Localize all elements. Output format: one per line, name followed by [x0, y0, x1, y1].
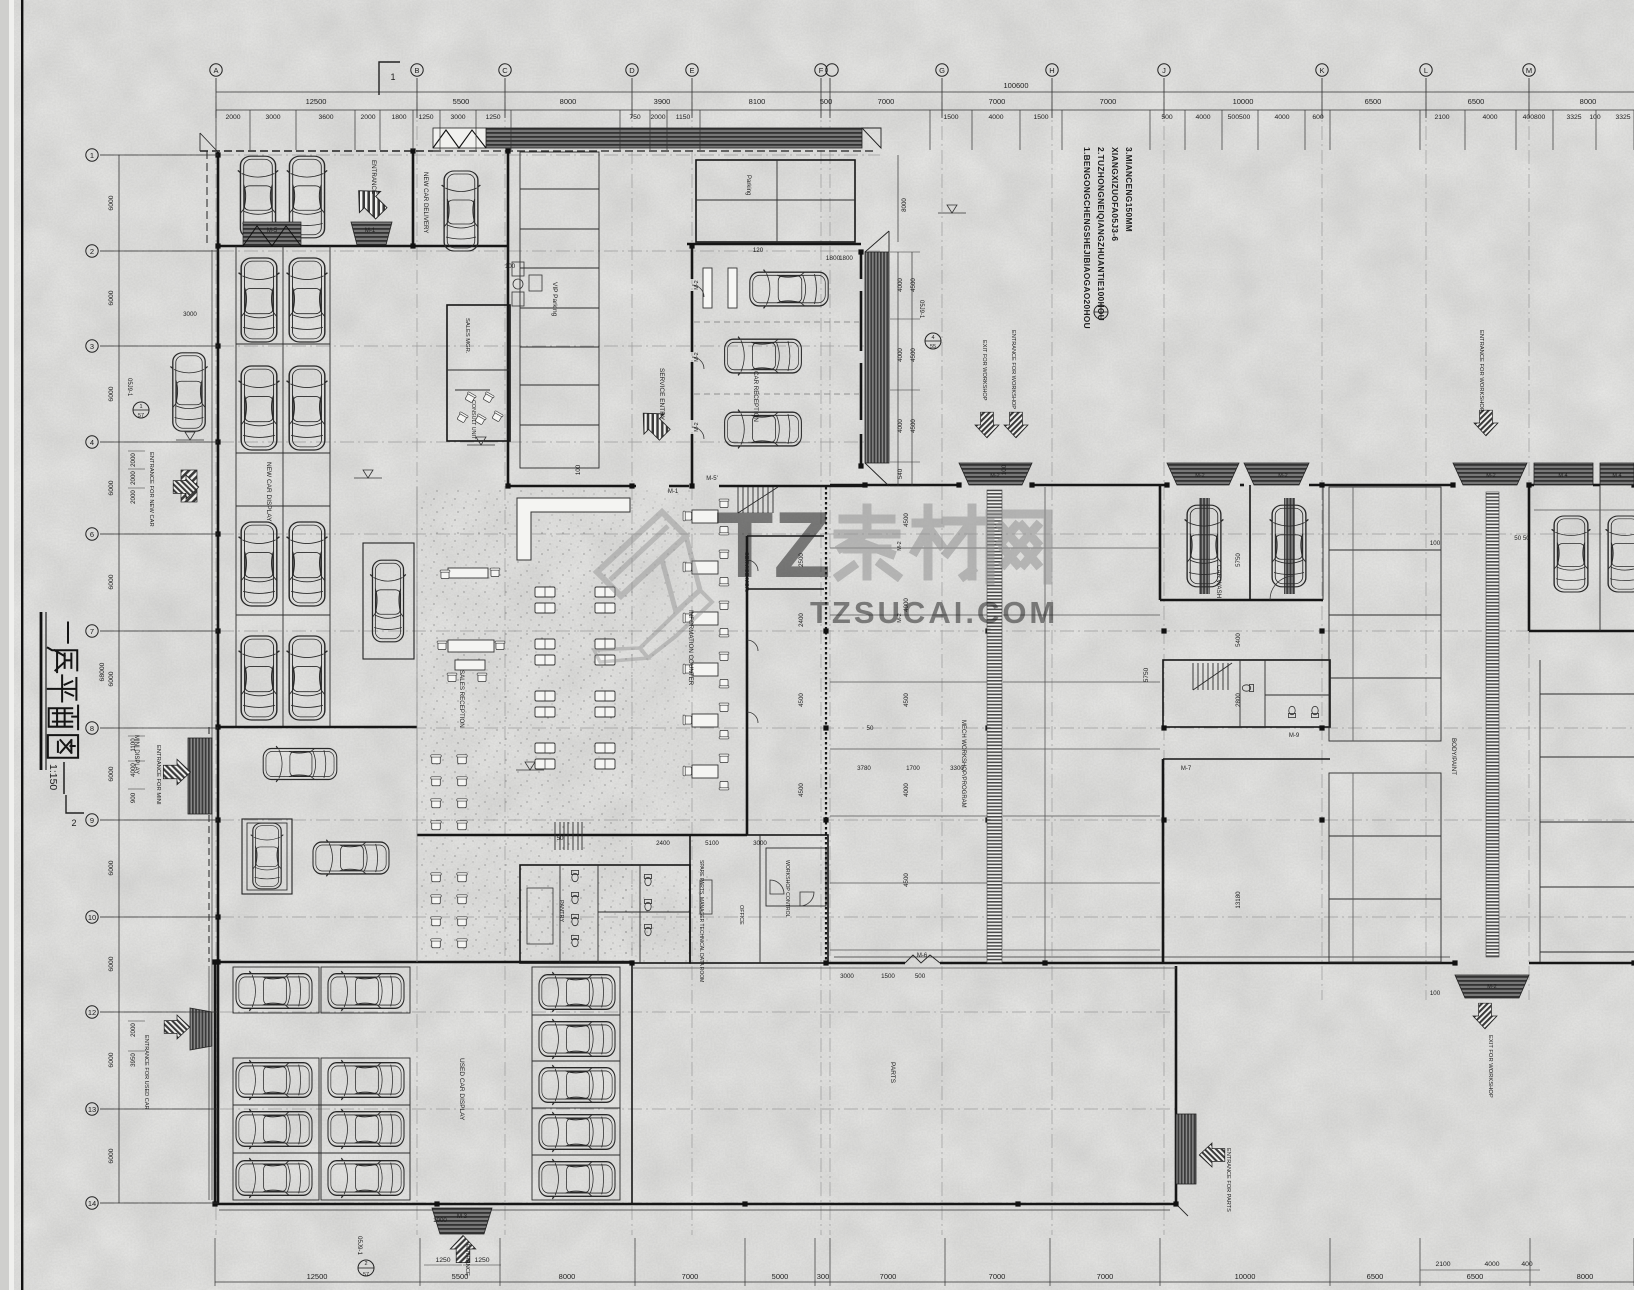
svg-text:12: 12	[88, 1008, 96, 1017]
svg-text:400800: 400800	[1523, 114, 1546, 121]
entrance arrow	[1473, 1003, 1497, 1029]
svg-text:OFFICE: OFFICE	[738, 905, 744, 925]
canopy band top (dark)	[486, 128, 862, 148]
svg-text:K: K	[1319, 66, 1324, 75]
car wash room	[1159, 485, 1162, 600]
wc fixtures right wing	[1242, 684, 1253, 691]
entrance arrow	[163, 759, 190, 785]
svg-text:L: L	[1424, 66, 1428, 75]
svg-text:C: C	[502, 66, 508, 75]
svg-text:CAR WASH: CAR WASH	[1215, 565, 1222, 598]
svg-text:6500: 6500	[1467, 1272, 1484, 1281]
pantry fixtures	[527, 888, 553, 944]
car	[725, 410, 802, 449]
car	[263, 746, 337, 782]
svg-text:A: A	[213, 66, 218, 75]
consult unit chairs	[464, 392, 476, 404]
svg-text:300: 300	[817, 1272, 830, 1281]
car	[539, 1112, 615, 1152]
car	[370, 560, 406, 642]
svg-text:7: 7	[90, 627, 94, 636]
corner chamfer top-left	[200, 133, 218, 152]
car	[328, 1158, 404, 1198]
svg-text:4000: 4000	[1274, 114, 1289, 121]
car	[1552, 516, 1591, 592]
svg-text:6000: 6000	[108, 386, 115, 401]
right wing west dotted wall x=826	[825, 487, 827, 963]
car	[539, 972, 615, 1012]
M-4 canopies top right	[1534, 463, 1593, 485]
entrance arrow	[1199, 1143, 1225, 1167]
entrance arrow	[164, 1015, 190, 1039]
svg-text:500: 500	[1161, 114, 1173, 121]
car	[442, 171, 481, 251]
svg-text:4000: 4000	[1195, 114, 1210, 121]
svg-text:100: 100	[575, 464, 582, 475]
svg-text:50 50: 50 50	[1514, 535, 1530, 542]
svg-text:SPARE PARTS, MANAGER TECHNICAL: SPARE PARTS, MANAGER TECHNICAL DATA ROOM	[698, 860, 704, 982]
svg-text:M-1: M-1	[668, 489, 679, 495]
MINI entrance hatch	[188, 738, 212, 814]
svg-text:3000: 3000	[753, 840, 767, 847]
svg-text:SALES MGR.: SALES MGR.	[464, 318, 470, 354]
svg-text:1: 1	[390, 72, 395, 82]
watermark logo	[594, 512, 712, 662]
used car east wall x=632	[631, 962, 633, 1204]
svg-text:NEW CAR DISPLAY: NEW CAR DISPLAY	[265, 462, 272, 522]
wall: reception block top y=244	[687, 243, 861, 246]
svg-text:100: 100	[505, 263, 516, 270]
tall hatched strip mech workshop	[987, 490, 1002, 963]
svg-text:M-6: M-6	[917, 953, 928, 959]
svg-text:4: 4	[931, 335, 934, 341]
wall: reception east x=861	[860, 252, 863, 279]
svg-text:10: 10	[88, 913, 96, 922]
svg-text:6000: 6000	[108, 290, 115, 305]
car	[1185, 505, 1224, 587]
svg-text:3: 3	[90, 342, 94, 351]
office desks south-centre	[700, 880, 712, 914]
column grid lines	[215, 78, 217, 1235]
display platform	[363, 543, 414, 659]
svg-text:2100: 2100	[1435, 1261, 1450, 1268]
svg-text:05J9-1: 05J9-1	[918, 300, 924, 319]
office rooms south-centre	[690, 835, 828, 963]
car	[328, 1060, 404, 1100]
svg-text:14: 14	[88, 1199, 96, 1208]
svg-text:4000: 4000	[1484, 1261, 1499, 1268]
svg-text:6000: 6000	[108, 195, 115, 210]
parts east canopy	[1176, 1114, 1196, 1184]
entrance arrow	[633, 403, 675, 445]
svg-text:1.BENGONGCHENGSHEJIBIAOGAO20HO: 1.BENGONGCHENGSHEJIBIAOGAO20HOU	[1082, 147, 1092, 329]
showroom sofa grid	[535, 587, 555, 597]
entrance arrow	[1474, 410, 1498, 436]
svg-text:M-2: M-2	[897, 541, 903, 550]
svg-text:05J9-1: 05J9-1	[126, 378, 132, 397]
svg-text:M-2: M-2	[1195, 473, 1204, 479]
car	[287, 258, 328, 342]
svg-text:4000: 4000	[897, 278, 904, 292]
outer wall: showroom west	[217, 246, 220, 1204]
body/paint cells	[1329, 487, 1441, 741]
svg-text:M: M	[1526, 66, 1532, 75]
svg-text:2400: 2400	[656, 840, 670, 847]
M-6 door zigzag	[905, 955, 940, 963]
svg-text:3325: 3325	[1615, 114, 1630, 121]
wash bay track	[1199, 498, 1210, 594]
svg-text:M-2: M-2	[1487, 984, 1496, 990]
wall: top-left block west	[217, 152, 220, 246]
svg-text:7000: 7000	[880, 1272, 897, 1281]
svg-text:2000: 2000	[130, 453, 137, 467]
svg-text:4500: 4500	[910, 278, 917, 292]
svg-text:M-9: M-9	[1289, 733, 1300, 739]
entrance arrow	[1004, 412, 1028, 438]
used car wing south y=1204	[215, 1203, 1176, 1206]
car	[328, 971, 404, 1011]
svg-text:8000: 8000	[1577, 1272, 1594, 1281]
svg-text:H: H	[1049, 66, 1054, 75]
svg-text:6000: 6000	[108, 671, 115, 686]
svg-text:M-2: M-2	[1278, 473, 1287, 479]
car	[539, 1159, 615, 1199]
svg-text:EXIT FOR WORKSHOP: EXIT FOR WORKSHOP	[981, 340, 987, 401]
canopy corner triangle	[862, 128, 881, 148]
car	[236, 1109, 312, 1149]
stair/WC cluster mid right	[1163, 660, 1330, 727]
svg-text:3900: 3900	[654, 97, 671, 106]
svg-text:8000: 8000	[1580, 97, 1597, 106]
car	[725, 337, 802, 376]
svg-text:3000: 3000	[265, 114, 280, 121]
svg-text:EXIT FOR WORKSHOP: EXIT FOR WORKSHOP	[1487, 1035, 1493, 1098]
svg-text:6000: 6000	[108, 480, 115, 495]
svg-text:2: 2	[71, 818, 76, 828]
entrance arrow	[173, 475, 199, 499]
new car display stall grid	[235, 246, 237, 726]
car	[1606, 516, 1634, 592]
svg-text:10000: 10000	[1235, 1272, 1256, 1281]
car	[251, 823, 284, 889]
svg-text:6000: 6000	[108, 1052, 115, 1067]
section marker 1 top	[379, 62, 400, 95]
svg-text:VIP Parking: VIP Parking	[551, 282, 558, 317]
svg-text:1: 1	[139, 404, 142, 410]
car	[328, 1109, 404, 1149]
svg-text:6500: 6500	[1468, 97, 1485, 106]
sheet left margin shading	[0, 0, 9, 1290]
car	[239, 522, 280, 606]
svg-text:2: 2	[364, 1261, 367, 1267]
car	[239, 258, 280, 342]
car	[238, 156, 278, 238]
car	[287, 636, 328, 720]
svg-text:SERVICE ENTRY: SERVICE ENTRY	[658, 368, 665, 421]
svg-text:55: 55	[930, 344, 936, 350]
svg-text:10000: 10000	[1233, 97, 1254, 106]
svg-text:500: 500	[915, 973, 926, 980]
svg-text:6: 6	[90, 530, 94, 539]
svg-text:J: J	[1162, 66, 1166, 75]
svg-text:750: 750	[629, 114, 641, 121]
svg-text:TZ: TZ	[716, 492, 831, 597]
svg-text:9: 9	[90, 816, 94, 825]
svg-text:4000: 4000	[897, 419, 904, 433]
wall: MINI west dashed	[208, 727, 210, 962]
wall: delivery bay west	[412, 151, 415, 246]
svg-text:68000: 68000	[99, 662, 106, 681]
svg-text:1150: 1150	[676, 114, 691, 121]
svg-text:M-2: M-2	[990, 473, 999, 479]
canopy right vertical strip	[865, 252, 889, 463]
svg-text:TZSUCAI.COM: TZSUCAI.COM	[810, 595, 1058, 630]
svg-text:7000: 7000	[682, 1272, 699, 1281]
info counter desk column	[692, 510, 718, 523]
svg-text:4500: 4500	[903, 693, 910, 707]
sales mgr office	[447, 305, 510, 441]
stippled showroom floor	[417, 490, 632, 960]
svg-text:2400: 2400	[798, 613, 805, 627]
wall: showroom mid y=727	[218, 726, 417, 729]
car	[1270, 505, 1309, 587]
svg-text:M 4: M 4	[1612, 473, 1621, 479]
car	[236, 1060, 312, 1100]
svg-text:3000: 3000	[183, 311, 197, 318]
svg-text:M-2: M-2	[1486, 473, 1495, 479]
svg-text:5750: 5750	[1143, 667, 1150, 682]
svg-text:M-2: M-2	[694, 422, 700, 431]
svg-text:M-7: M-7	[1181, 766, 1192, 772]
svg-text:540: 540	[897, 468, 904, 479]
top dimension band	[216, 91, 1634, 93]
svg-text:13180: 13180	[1235, 891, 1242, 909]
info counter L desk top	[517, 498, 630, 560]
svg-text:8: 8	[90, 724, 94, 733]
svg-text:2800: 2800	[1235, 693, 1242, 707]
svg-text:1800: 1800	[839, 255, 853, 262]
svg-text:E: E	[689, 66, 694, 75]
svg-text:7000: 7000	[989, 97, 1006, 106]
svg-text:USED CAR DISPLAY: USED CAR DISPLAY	[458, 1058, 465, 1121]
svg-text:2.TUZHONGNEIQIANGZHUANTIE100HO: 2.TUZHONGNEIQIANGZHUANTIE100HOU	[1096, 147, 1106, 321]
svg-text:1800: 1800	[391, 114, 406, 121]
svg-text:ENTRANCE FOR MINI: ENTRANCE FOR MINI	[155, 745, 161, 805]
interior stair showroom	[555, 822, 582, 850]
mech workshop bay lines	[830, 547, 988, 549]
svg-text:1500: 1500	[943, 114, 958, 121]
bottom entrance stair M-3	[432, 1208, 492, 1234]
svg-text:ENTRANCE FOR PARTS: ENTRANCE FOR PARTS	[1225, 1148, 1231, 1212]
reception east dim chain	[897, 252, 899, 486]
workshop south canopy	[1455, 975, 1529, 998]
svg-text:5750: 5750	[1235, 553, 1242, 567]
svg-text:4500: 4500	[903, 873, 910, 887]
svg-text:6000: 6000	[108, 860, 115, 875]
waiting chairs groups	[431, 755, 441, 764]
svg-text:900: 900	[130, 792, 137, 803]
used car stall grid right	[532, 967, 620, 1200]
svg-text:7000: 7000	[1097, 1272, 1114, 1281]
svg-text:7000: 7000	[1100, 97, 1117, 106]
wall: service entry corridor x=692 with door gaps	[691, 246, 694, 279]
svg-text:100: 100	[1430, 540, 1441, 547]
sheet border line left	[21, 0, 23, 1290]
svg-text:600: 600	[1312, 114, 1324, 121]
svg-text:M 3: M 3	[457, 1214, 468, 1220]
wall: showroom north (y=246)	[218, 245, 508, 248]
left entrance hatch (new car)	[181, 470, 197, 502]
entrance arrow	[975, 412, 999, 438]
svg-text:4500: 4500	[910, 348, 917, 362]
car	[236, 1158, 312, 1198]
detail reference bubbles	[133, 402, 149, 418]
svg-text:5100: 5100	[705, 840, 719, 847]
door arcs corridor	[692, 285, 704, 297]
entrance arrow	[348, 180, 392, 224]
small level marks	[363, 470, 373, 478]
title underline double	[40, 612, 43, 770]
svg-text:4000: 4000	[988, 114, 1003, 121]
structural column markers	[215, 243, 220, 248]
svg-text:7000: 7000	[878, 97, 895, 106]
svg-text:57: 57	[363, 1272, 369, 1278]
body shop west wall x=1163	[1162, 759, 1165, 963]
tall hatched strip body shop	[1486, 492, 1499, 957]
svg-text:MECH WORKSHOP/PROGRAM: MECH WORKSHOP/PROGRAM	[960, 720, 966, 808]
svg-text:05J9-1: 05J9-1	[356, 1236, 363, 1255]
car	[239, 366, 280, 450]
car	[539, 1065, 615, 1105]
section marker 2 left	[66, 795, 84, 813]
svg-text:3780: 3780	[857, 765, 871, 772]
detail ref bubble bottom	[358, 1260, 374, 1276]
VIP parking stalls	[520, 152, 599, 468]
svg-text:57: 57	[138, 413, 144, 419]
svg-text:M-5': M-5'	[706, 476, 717, 482]
svg-text:PANTRY: PANTRY	[558, 900, 564, 922]
wall: VIP west x=508	[507, 151, 510, 486]
svg-text:4500: 4500	[903, 513, 910, 527]
svg-text:8000: 8000	[559, 1272, 576, 1281]
svg-text:3000: 3000	[840, 973, 854, 980]
reception desk bars	[703, 268, 712, 308]
used car entrance hatch	[190, 1008, 212, 1050]
svg-text:1: 1	[90, 151, 94, 160]
svg-text:PARTS: PARTS	[889, 1062, 896, 1084]
svg-text:CAR RECEPTION: CAR RECEPTION	[752, 371, 759, 422]
svg-text:B: B	[414, 66, 419, 75]
svg-text:4000: 4000	[1482, 114, 1497, 121]
bottom dimension band	[215, 1281, 1634, 1283]
svg-text:400: 400	[1521, 1261, 1533, 1268]
far right bay cells	[1539, 660, 1541, 962]
svg-text:M-5: M-5	[267, 228, 278, 234]
car	[236, 971, 312, 1011]
used car stall grid left	[233, 967, 319, 1013]
svg-text:4500: 4500	[910, 419, 917, 433]
svg-text:2: 2	[90, 247, 94, 256]
svg-text:3000: 3000	[450, 114, 465, 121]
svg-text:120: 120	[753, 247, 764, 254]
mini display platform	[242, 819, 292, 894]
svg-text:5400: 5400	[1235, 633, 1242, 647]
svg-text:2000: 2000	[130, 490, 137, 504]
wall: main hall north y=486	[508, 485, 636, 488]
svg-text:WORKSHOP CONTROL: WORKSHOP CONTROL	[784, 860, 790, 918]
svg-text:4500: 4500	[798, 693, 805, 707]
svg-text:BODY/PAINT: BODY/PAINT	[1450, 738, 1457, 775]
svg-text:6000: 6000	[108, 956, 115, 971]
svg-text:2000: 2000	[130, 471, 137, 485]
top right car rooms	[1528, 485, 1531, 631]
parts wing east x=1176	[1175, 966, 1178, 1204]
svg-text:2000: 2000	[130, 1023, 137, 1037]
WC/pantry block	[520, 865, 690, 963]
svg-text:500500: 500500	[1228, 114, 1251, 121]
svg-text:ENTRANCE FOR NEW CAR: ENTRANCE FOR NEW CAR	[148, 452, 154, 527]
svg-text:1000: 1000	[433, 1217, 447, 1224]
svg-text:3325: 3325	[1566, 114, 1581, 121]
svg-text:M-2: M-2	[694, 280, 700, 289]
corridor wall x=747	[746, 536, 749, 835]
title: floor plan (rotated CJK drawn)	[48, 623, 78, 758]
svg-text:3950: 3950	[130, 1053, 137, 1067]
svg-text:50: 50	[867, 725, 874, 732]
parts south inner line	[632, 967, 1176, 969]
svg-text:D: D	[629, 66, 635, 75]
used car wing west x=215	[214, 962, 217, 1204]
svg-text:4: 4	[90, 438, 94, 447]
svg-text:MINI DISPLAY: MINI DISPLAY	[133, 735, 139, 774]
main hall south wall y=835	[417, 834, 747, 837]
svg-text:2100: 2100	[1434, 114, 1449, 121]
svg-text:5000: 5000	[772, 1272, 789, 1281]
svg-text:4500: 4500	[798, 783, 805, 797]
svg-text:7000: 7000	[989, 1272, 1006, 1281]
svg-text:3600: 3600	[318, 114, 333, 121]
reception bay dash rows	[694, 321, 859, 323]
svg-text:500: 500	[820, 97, 833, 106]
watermark CJK chars (drawn)	[838, 508, 1048, 580]
right wing south wall y=963	[828, 962, 905, 965]
svg-text:1700: 1700	[906, 765, 920, 772]
svg-text:6500: 6500	[1367, 1272, 1384, 1281]
svg-text:3.MIANCENG150MM: 3.MIANCENG150MM	[1124, 147, 1134, 232]
svg-text:100: 100	[1430, 990, 1441, 997]
car	[287, 522, 328, 606]
svg-text:1250: 1250	[435, 1257, 450, 1264]
interior stair top centre	[738, 487, 778, 513]
svg-text:100600: 100600	[1003, 81, 1028, 90]
svg-text:ENTRANCE: ENTRANCE	[464, 1244, 470, 1276]
svg-text:100: 100	[1589, 114, 1601, 121]
svg-text:CONSULT UNIT: CONSULT UNIT	[470, 400, 476, 440]
svg-text:ENTRANCE FOR WORKSHOP: ENTRANCE FOR WORKSHOP	[1010, 330, 1016, 409]
svg-text:XIANGXIZUOFA05J3-6: XIANGXIZUOFA05J3-6	[1110, 147, 1120, 241]
car	[170, 353, 207, 431]
svg-text:1500: 1500	[1033, 114, 1048, 121]
svg-text:2000: 2000	[650, 114, 665, 121]
left dimension band	[118, 155, 120, 1203]
sales reception desks	[448, 568, 488, 578]
svg-text:M 4: M 4	[1558, 473, 1567, 479]
svg-text:1:150: 1:150	[47, 764, 59, 790]
workshop north canopies	[959, 463, 1032, 485]
svg-text:2000: 2000	[225, 114, 240, 121]
svg-text:F: F	[819, 66, 824, 75]
folding door M-3 zigzag	[433, 128, 486, 148]
